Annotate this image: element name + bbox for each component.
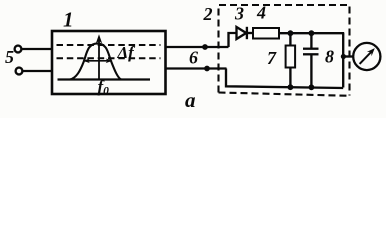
- bottom rail wire: [226, 69, 343, 89]
- wire block1 to node 6 top: [166, 46, 229, 48]
- svg-text:4: 4: [256, 3, 266, 23]
- wire block1 to node 6 bottom: [166, 67, 227, 69]
- svg-text:2: 2: [203, 4, 213, 24]
- upper dashed level line inside block 1: [57, 44, 161, 46]
- input terminal top (node 5): [15, 46, 22, 53]
- diode 3: [237, 27, 247, 39]
- resonance curve inside block 1: [70, 43, 121, 79]
- junction dot top of capacitor 8: [309, 30, 315, 36]
- svg-text:Δf: Δf: [117, 43, 137, 62]
- frequency axis baseline inside block 1: [58, 78, 151, 80]
- svg-text:6: 6: [189, 48, 198, 68]
- bandwidth double arrow inside block 1: [84, 60, 112, 62]
- detector dashed enclosure 2: [219, 5, 350, 96]
- svg-text:1: 1: [63, 8, 74, 32]
- capacitor 8 plates: [303, 48, 319, 50]
- top rail wire: [279, 32, 344, 34]
- filter block 1 (bandpass filter): [52, 31, 166, 94]
- meter needle arrow: [360, 51, 372, 64]
- capacitor 8 leads: [310, 33, 312, 48]
- junction dot node 6 bottom: [204, 66, 210, 72]
- stub wire to meter: [343, 55, 353, 57]
- resistor 7: [286, 46, 296, 68]
- svg-text:5: 5: [5, 47, 14, 67]
- lower dashed level line inside block 1: [57, 57, 161, 59]
- input terminal bottom (node 5): [16, 68, 23, 75]
- junction dot bottom of resistor 7: [288, 84, 294, 90]
- svg-text:7: 7: [267, 48, 277, 68]
- resistor 4: [253, 28, 279, 39]
- junction dot node 6 top: [202, 44, 208, 50]
- right vertical rail wire: [342, 33, 344, 87]
- svg-text:3: 3: [234, 4, 244, 24]
- resistor 7 leads: [289, 33, 291, 45]
- wire diode to resistor 4: [247, 32, 253, 34]
- junction dot top of resistor 7: [288, 30, 294, 36]
- vertical axis arrow inside block 1: [98, 38, 100, 79]
- junction dot bottom of capacitor 8: [309, 84, 315, 90]
- wire riser to diode rail: [229, 33, 237, 47]
- svg-text:8: 8: [325, 47, 334, 67]
- svg-text:а: а: [185, 88, 196, 112]
- wire input bottom: [23, 70, 53, 72]
- meter (galvanometer): [353, 43, 380, 70]
- wire input top: [22, 48, 53, 50]
- junction dot meter stub: [341, 54, 346, 59]
